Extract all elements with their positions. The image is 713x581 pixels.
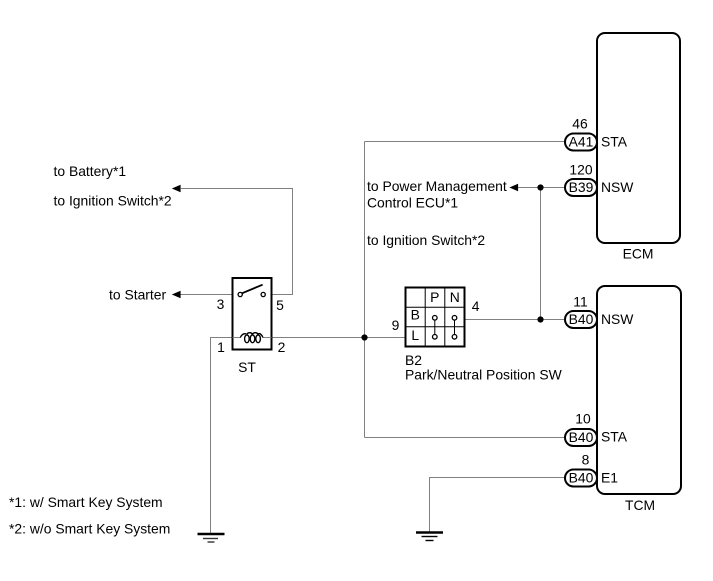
wire STA net: ECM A41 to vertical xyxy=(365,141,566,143)
TCM U-box xyxy=(597,286,681,494)
svg-text:8: 8 xyxy=(582,452,590,468)
arrowhead to Power Management Control ECU xyxy=(509,184,518,192)
svg-text:E1: E1 xyxy=(601,470,618,486)
connector oval B40 pin 10 xyxy=(565,429,597,446)
wire ST pin 5 up to Battery/Ignition xyxy=(181,189,293,295)
B2 contact N lower xyxy=(452,335,457,340)
svg-text:STA: STA xyxy=(601,429,628,445)
svg-text:*2: w/o Smart Key System: *2: w/o Smart Key System xyxy=(9,521,170,537)
svg-text:B39: B39 xyxy=(569,179,594,195)
ground symbol under relay xyxy=(198,534,225,542)
Park/Neutral Position SW B2 box xyxy=(406,288,465,347)
svg-text:120: 120 xyxy=(569,161,592,177)
B2 contact link P column xyxy=(434,320,436,334)
relay ST switch blade xyxy=(242,285,263,294)
relay ST switch contact left xyxy=(238,292,242,296)
arrowhead to Battery / Ignition Switch xyxy=(172,185,181,193)
wire STA net: main vertical xyxy=(364,142,366,438)
svg-text:NSW: NSW xyxy=(601,311,634,327)
relay ST switch contact right xyxy=(261,292,265,296)
connector oval B40 pin 11 xyxy=(565,311,597,328)
ground symbol under E1 xyxy=(416,533,443,541)
wire Park/Neutral SW pin 4 to TCM B40 pin 11 xyxy=(465,319,566,321)
svg-text:P: P xyxy=(430,289,439,305)
junction STA net at ST pin 2 wire xyxy=(361,334,367,340)
svg-text:to Ignition Switch*2: to Ignition Switch*2 xyxy=(367,232,485,248)
svg-text:N: N xyxy=(450,289,460,305)
junction NSW net at pin 4 wire xyxy=(537,316,543,322)
wire STA net: vertical to TCM B40 pin 10 xyxy=(365,437,566,439)
svg-text:2: 2 xyxy=(278,339,286,355)
connector oval B40 pin 8 xyxy=(565,470,597,487)
wire NSW net: vertical xyxy=(540,188,542,320)
svg-text:10: 10 xyxy=(575,411,591,427)
arrowhead to Starter xyxy=(172,291,181,299)
B2 grid column line 1 xyxy=(424,288,426,347)
ECM U-box xyxy=(597,33,680,243)
svg-text:L: L xyxy=(411,327,419,343)
wire TCM B40 pin 8 E1 to ground xyxy=(430,478,566,533)
svg-text:1: 1 xyxy=(217,339,225,355)
B2 contact N upper xyxy=(452,316,457,321)
svg-text:B: B xyxy=(411,307,420,323)
wire NSW net: ECM B39 to Power Management arrow xyxy=(517,187,566,189)
svg-text:Park/Neutral Position SW: Park/Neutral Position SW xyxy=(405,367,563,383)
svg-text:B40: B40 xyxy=(569,311,594,327)
svg-text:Control ECU*1: Control ECU*1 xyxy=(367,195,458,211)
svg-text:*1: w/ Smart Key System: *1: w/ Smart Key System xyxy=(9,494,163,510)
svg-text:9: 9 xyxy=(392,317,400,333)
B2 grid row line 1 xyxy=(406,306,465,308)
wire ST pin 1 to ground xyxy=(211,338,233,534)
svg-text:STA: STA xyxy=(601,134,628,150)
relay ST coil L1 xyxy=(240,333,263,343)
svg-text:B40: B40 xyxy=(569,429,594,445)
B2 grid column line 2 xyxy=(444,288,446,347)
svg-text:TCM: TCM xyxy=(625,497,655,513)
wire stub relay interior left xyxy=(233,337,241,339)
svg-text:to Ignition Switch*2: to Ignition Switch*2 xyxy=(54,193,172,209)
junction NSW net at B39 wire xyxy=(537,184,543,190)
relay ST box xyxy=(233,278,272,350)
connector oval A41 xyxy=(565,134,597,151)
B2 grid row line 2 xyxy=(406,326,465,328)
B2 contact P lower xyxy=(433,335,438,340)
svg-text:ST: ST xyxy=(238,359,256,375)
svg-text:B2: B2 xyxy=(405,352,422,368)
wire stub relay interior right xyxy=(263,337,272,339)
B2 contact link N column xyxy=(454,320,456,334)
svg-text:to Starter: to Starter xyxy=(109,287,167,303)
svg-text:5: 5 xyxy=(276,297,284,313)
B2 contact P upper xyxy=(433,316,438,321)
svg-text:NSW: NSW xyxy=(601,179,634,195)
connector oval B39 xyxy=(565,179,597,196)
svg-text:A41: A41 xyxy=(569,134,594,150)
svg-text:to Power Management: to Power Management xyxy=(367,178,507,194)
svg-text:3: 3 xyxy=(217,296,225,312)
svg-text:4: 4 xyxy=(472,298,480,314)
svg-text:11: 11 xyxy=(573,294,588,310)
svg-text:ECM: ECM xyxy=(623,246,654,262)
svg-text:46: 46 xyxy=(572,116,588,132)
wire ST pin 3 to Starter xyxy=(180,294,233,296)
wire ST pin 2 to Park/Neutral SW pin 9 xyxy=(272,337,406,339)
svg-text:B40: B40 xyxy=(569,470,594,486)
svg-text:to Battery*1: to Battery*1 xyxy=(54,163,127,179)
